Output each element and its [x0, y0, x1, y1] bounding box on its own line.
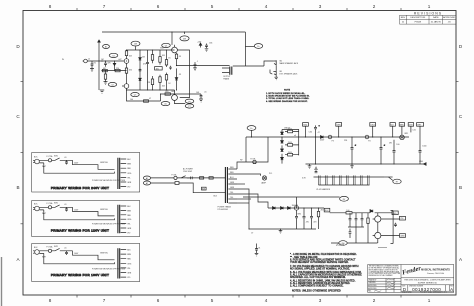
taps: [121, 159, 127, 187]
svg-text:47: 47: [354, 145, 356, 147]
wire: [381, 235, 400, 237]
wire half bridge: [177, 50, 189, 98]
svg-text:SW1: SW1: [54, 203, 58, 205]
svg-text:A2: A2: [146, 182, 148, 185]
svg-text:B+: B+: [257, 46, 259, 48]
node label Q2: [108, 82, 116, 86]
svg-text:10 JAN 95: 10 JAN 95: [431, 21, 442, 24]
svg-text:2. ALL COMPONENTS SUBJECT TO C: 2. ALL COMPONENTS SUBJECT TO CHANGE.: [290, 285, 344, 288]
wire primary neutral: [151, 183, 226, 193]
svg-text:47: 47: [318, 132, 320, 134]
zone letters left: [16, 44, 20, 262]
switch S1: [52, 205, 63, 207]
signature rows: [368, 278, 377, 292]
capacitor C12: [380, 137, 383, 164]
input jack J1: [84, 59, 88, 63]
wire: [39, 207, 48, 210]
connector label box: [400, 234, 406, 238]
signature scribbles: [374, 279, 395, 292]
svg-text:GRN: GRN: [127, 273, 132, 275]
node label RV2: [339, 241, 347, 246]
svg-text:APPROVED: APPROVED: [443, 16, 456, 19]
connector label box: [399, 123, 404, 127]
fuse F4: [365, 135, 369, 139]
speaker jack J4: [273, 71, 276, 76]
diode CR4: [281, 154, 284, 160]
primary wiring box 240V: [32, 153, 140, 193]
notes text block: [290, 253, 362, 293]
svg-text:Corona, CA U.S.A.: Corona, CA U.S.A.: [427, 272, 445, 275]
svg-text:CHECKED: CHECKED: [368, 282, 376, 284]
resistor R3: [115, 69, 120, 71]
ground: [205, 49, 209, 52]
diode CR23: [139, 78, 142, 80]
svg-text:DESCRIPTION: DESCRIPTION: [410, 17, 425, 19]
svg-text:470: 470: [306, 221, 309, 223]
svg-text:Q1: Q1: [112, 56, 114, 58]
svg-text:TRANS: TRANS: [223, 77, 230, 80]
svg-text:.01: .01: [64, 204, 67, 206]
connector label box: [336, 123, 342, 127]
cell bottom rail: [127, 89, 175, 91]
connector label box: [303, 123, 309, 127]
svg-text:SW1: SW1: [54, 246, 58, 248]
cell mid vertical: [139, 50, 141, 90]
svg-text:REVISIONS: REVISIONS: [414, 12, 442, 16]
svg-text:.01: .01: [64, 248, 67, 250]
svg-text:120V 60HZ: 120V 60HZ: [183, 171, 193, 173]
transformer primary winding: [118, 248, 120, 278]
svg-text:8: 8: [49, 4, 52, 9]
label extra: [64, 157, 108, 164]
transistor Q7: [375, 232, 381, 238]
resistor R16: [176, 53, 178, 54]
svg-text:2. MAIN SPEAKER MUST BE PLUGGE: 2. MAIN SPEAKER MUST BE PLUGGED IN.: [266, 95, 310, 98]
heater pair 4: [340, 175, 342, 185]
svg-text:1K5: 1K5: [129, 70, 132, 72]
svg-text:3: 3: [319, 4, 322, 9]
capacitor C4: [139, 69, 142, 72]
fuse F1: [48, 249, 51, 252]
wire: [338, 126, 340, 137]
resistor R6: [126, 65, 128, 68]
svg-text:REL.: REL.: [368, 290, 372, 292]
svg-text:GRN/YEL: GRN/YEL: [100, 209, 108, 211]
wire bias bottom: [331, 242, 378, 244]
wire: [381, 218, 400, 220]
transistor Q6: [377, 213, 379, 216]
plus sign: [355, 144, 357, 146]
svg-text:SW1: SW1: [54, 156, 58, 158]
svg-text:J2: J2: [88, 58, 90, 60]
svg-text:1K5: 1K5: [156, 68, 159, 70]
junction dots: [101, 31, 185, 94]
B+ top rail: [102, 31, 245, 33]
svg-text:YEL: YEL: [230, 197, 233, 199]
zone numbers top: [49, 4, 431, 9]
speaker jack J3: [273, 60, 276, 65]
AC plug P3: [35, 250, 40, 255]
svg-text:1N4003: 1N4003: [292, 205, 298, 207]
svg-text:ORG: ORG: [127, 219, 132, 221]
wire: [388, 177, 392, 180]
capacitor C14: [419, 126, 422, 164]
svg-text:GRN: GRN: [230, 187, 235, 189]
wire: [410, 126, 412, 132]
resistor R23: [318, 208, 320, 211]
capacitor C23: [394, 223, 397, 227]
wire cap to bottom: [315, 137, 317, 164]
wire: [39, 160, 48, 163]
svg-text:0019327000: 0019327000: [412, 287, 441, 292]
capacitor C21: [355, 213, 358, 227]
ground: [279, 229, 283, 233]
connector label box: [392, 211, 398, 215]
power bus rail: [98, 40, 100, 90]
zone numbers bottom: [49, 298, 431, 303]
resistor R22: [288, 153, 293, 156]
primary wiring box 120V: [32, 201, 140, 237]
wire: [44, 210, 115, 220]
svg-text:1N4007: 1N4007: [284, 128, 290, 130]
svg-text:6K8: 6K8: [171, 91, 174, 93]
svg-text:1: 1: [428, 4, 431, 9]
svg-text:5: 5: [211, 298, 214, 303]
svg-text:B: B: [459, 185, 462, 190]
svg-text:7: 7: [103, 4, 106, 9]
varistor RV1: [175, 182, 179, 185]
svg-text:1000: 1000: [422, 146, 426, 148]
svg-text:Q4: Q4: [165, 46, 167, 48]
svg-text:A1: A1: [146, 177, 148, 180]
wire HV corner: [245, 137, 247, 162]
svg-text:.33: .33: [179, 74, 182, 76]
capacitor C32: [65, 251, 68, 255]
svg-text:2W: 2W: [389, 142, 392, 144]
svg-text:1: 1: [428, 298, 431, 303]
node label P7: [185, 104, 194, 108]
wire: [251, 130, 253, 137]
node label HV: [247, 126, 256, 131]
svg-text:POWER SW SHOWN IN OFF POSITION: POWER SW SHOWN IN OFF POSITION: [92, 269, 126, 271]
svg-text:P/N 0035945: P/N 0035945: [218, 209, 229, 211]
wire: [384, 176, 393, 178]
transformer T2 windings: [230, 67, 232, 75]
node label A1: [143, 176, 150, 180]
node label LV: [340, 196, 349, 201]
svg-text:POWER SW SHOWN IN OFF POSITION: POWER SW SHOWN IN OFF POSITION: [92, 223, 126, 225]
resistor R2: [102, 69, 107, 71]
svg-text:4: 4: [265, 298, 268, 303]
plus sign: [318, 125, 320, 127]
svg-text:100: 100: [396, 144, 399, 146]
wire: [372, 126, 374, 137]
svg-text:C30: C30: [309, 131, 312, 133]
capacitor C3: [200, 94, 203, 99]
node label 45V: [184, 32, 186, 34]
wire secondary: [233, 65, 264, 67]
wire: [127, 90, 161, 101]
node label Q5: [161, 102, 170, 106]
resistor R14: [166, 50, 168, 60]
switch S1: [181, 176, 190, 178]
wire: [44, 163, 115, 173]
wire: [171, 32, 173, 45]
zone letters right: [459, 44, 463, 262]
connector label box: [390, 123, 395, 127]
capacitor C10: [314, 125, 317, 137]
wire: [285, 132, 299, 155]
main DC rail: [246, 136, 409, 138]
svg-text:F3: F3: [332, 140, 334, 142]
resistor R8: [165, 93, 170, 95]
capacitor C18: [310, 208, 313, 229]
svg-text:JG: JG: [448, 22, 451, 24]
connector label box: [417, 123, 424, 127]
capacitor C17: [303, 208, 306, 229]
svg-text:6: 6: [157, 4, 160, 9]
fuse F1: [48, 206, 51, 209]
wire: [237, 174, 261, 176]
heater pair 2: [326, 175, 328, 185]
svg-text:YEL: YEL: [230, 192, 233, 194]
resistor R25: [367, 213, 369, 218]
wire second rail: [102, 70, 127, 72]
svg-text:x4: x4: [294, 135, 296, 137]
fuse F1: [174, 176, 177, 179]
svg-text:GND: GND: [419, 161, 424, 163]
svg-text:Q2: Q2: [111, 85, 113, 87]
svg-text:.33: .33: [179, 56, 182, 58]
svg-text:2: 2: [373, 298, 376, 303]
junction dots: [248, 136, 394, 229]
svg-text:F4: F4: [368, 140, 370, 142]
svg-text:LAMP: LAMP: [261, 181, 267, 184]
svg-text:YOUR NEAREST AUTHORIZED SERVIC: YOUR NEAREST AUTHORIZED SERVICE CENTER.: [290, 261, 349, 264]
fuse F3: [328, 135, 332, 139]
svg-text:8: 8: [49, 298, 52, 303]
node label Q1: [109, 53, 118, 57]
stamp scribble: [336, 244, 344, 246]
staircase wire 3: [237, 194, 268, 208]
svg-text:220: 220: [116, 68, 119, 70]
resistor R5: [126, 56, 128, 57]
node label T1: [135, 46, 137, 50]
svg-text:P9448: P9448: [415, 22, 422, 24]
svg-text:ORG: ORG: [127, 173, 132, 175]
svg-text:B: B: [16, 185, 19, 190]
tap labels: [230, 167, 235, 199]
diode CR20: [175, 68, 178, 90]
resistor R15: [166, 73, 168, 75]
ground: [308, 164, 312, 168]
resistor R12: [159, 75, 161, 77]
svg-text:4K7: 4K7: [103, 68, 106, 70]
svg-text:YEL: YEL: [127, 177, 130, 179]
svg-text:5: 5: [211, 4, 214, 9]
capacitor C22: [361, 213, 364, 227]
wire: [392, 126, 394, 137]
label extra: [64, 204, 108, 211]
wire: [87, 60, 124, 62]
svg-text:F1 3A: F1 3A: [172, 173, 178, 176]
resistor R31: [209, 177, 213, 179]
resistor R30: [200, 177, 204, 179]
switch S1: [52, 248, 63, 250]
heater pair 3: [333, 175, 335, 185]
diode CR1: [281, 130, 284, 135]
wire: [305, 126, 307, 137]
svg-text:3: 3: [319, 298, 322, 303]
capacitor C33: [191, 177, 193, 180]
wire jack riser: [264, 61, 273, 66]
wire: [348, 227, 364, 243]
diode CR2: [281, 137, 284, 143]
fuse F2: [253, 160, 256, 163]
node label OT: [254, 44, 262, 49]
connector label box: [408, 123, 413, 127]
svg-text:MAIN SPEAKER JACK: MAIN SPEAKER JACK: [280, 62, 299, 65]
lamp DS1: [262, 176, 266, 180]
svg-text:NOTE: NOTE: [284, 90, 291, 92]
svg-text:R1: R1: [94, 62, 96, 64]
diode CR8: [273, 207, 276, 210]
svg-text:GRN: GRN: [127, 182, 132, 184]
node label HT: [393, 179, 401, 184]
ground: [104, 82, 108, 85]
wire HV tap: [237, 137, 268, 169]
wire: [401, 126, 403, 135]
svg-text:POWER TRANS: POWER TRANS: [218, 206, 232, 209]
svg-text:A: A: [450, 287, 453, 292]
capacitor C1: [104, 61, 107, 67]
resistor R4: [105, 71, 107, 74]
rectifier circle: [294, 206, 298, 210]
svg-text:1. BOTH JACKS WIRED IN PARALLE: 1. BOTH JACKS WIRED IN PARALLEL.: [266, 92, 306, 95]
svg-text:.1: .1: [196, 61, 198, 63]
capacitor C0: [91, 61, 94, 69]
ground rail: [249, 228, 316, 230]
wire Q5 out: [175, 101, 186, 104]
heater pair 8: [368, 175, 370, 185]
svg-text:100: 100: [346, 210, 349, 212]
diode CR10: [288, 207, 291, 210]
svg-text:BR1: BR1: [405, 133, 409, 135]
svg-text:.01: .01: [258, 247, 261, 249]
svg-text:100: 100: [130, 99, 133, 101]
ground: [100, 90, 104, 93]
svg-text:820: 820: [165, 91, 168, 93]
wire output node: [177, 65, 230, 67]
staircase wire 2: [237, 189, 249, 204]
capacitor C7: [194, 62, 197, 68]
heater chain wire: [314, 176, 385, 178]
connector label box: [400, 216, 406, 220]
transformer T1 taps: [228, 169, 237, 203]
svg-text:NO SIGNAL APPLIED. LINE AT NOM: NO SIGNAL APPLIED. LINE AT NOMINAL VOLTA…: [290, 267, 350, 270]
wire: [275, 65, 277, 70]
svg-text:F1 T2A: F1 T2A: [47, 155, 54, 158]
svg-text:BR2: BR2: [298, 214, 302, 216]
ground: [350, 164, 354, 168]
connector label box: [370, 123, 376, 127]
svg-text:GRN/YEL: GRN/YEL: [100, 253, 108, 255]
svg-text:470: 470: [143, 64, 146, 66]
title block frame: [368, 265, 454, 293]
tap labels: [127, 206, 132, 234]
node arrow: [424, 163, 427, 166]
svg-text:6: 6: [157, 298, 160, 303]
diode CR3: [281, 145, 284, 151]
capacitor C20: [349, 213, 352, 227]
heater pair 7: [361, 175, 363, 185]
svg-text:SW: SW: [202, 188, 205, 190]
svg-text:THIS DWG IS A SCHEMATIC, COMPL: THIS DWG IS A SCHEMATIC, COMPLETE AMPLIF…: [404, 279, 451, 282]
svg-text:D: D: [403, 287, 406, 292]
resistor R21: [288, 144, 293, 147]
svg-text:PRIMARY WIRING FOR 100V UNIT: PRIMARY WIRING FOR 100V UNIT: [51, 273, 109, 277]
capacitor C5: [146, 50, 149, 90]
resistor R20: [288, 130, 293, 133]
svg-text:POWER SW SHOWN IN OFF POSITION: POWER SW SHOWN IN OFF POSITION: [92, 180, 126, 182]
wire LV feed: [243, 197, 340, 208]
staircase wire 5: [237, 202, 249, 204]
wire to net label: [245, 46, 254, 48]
resistor R7: [144, 100, 149, 102]
resistor R10: [152, 76, 154, 79]
taps: [121, 206, 127, 232]
plus sign: [384, 144, 386, 146]
svg-text:GRN: GRN: [230, 182, 235, 184]
capacitor C30: [65, 160, 68, 164]
svg-text:4. SEE WIRING DIAGRAM FOR HOOK: 4. SEE WIRING DIAGRAM FOR HOOKUP.: [266, 100, 308, 103]
capacitor C24: [349, 229, 352, 239]
svg-text:V1-V5 HEATERS: V1-V5 HEATERS: [316, 188, 331, 191]
tap labels: [127, 159, 132, 189]
wire: [39, 251, 48, 254]
svg-text:4: 4: [265, 4, 268, 9]
svg-text:SUPER SERIES 60: SUPER SERIES 60: [418, 283, 438, 285]
wire right rail: [391, 211, 394, 244]
svg-text:YEL: YEL: [127, 224, 130, 226]
svg-text:Q3: Q3: [134, 95, 136, 97]
node V+ arrow: [98, 40, 101, 42]
staircase wire 4: [237, 198, 251, 200]
transistor Q2: [114, 61, 116, 63]
heater pair 1: [319, 175, 321, 185]
node label A2: [143, 181, 150, 185]
svg-text:47: 47: [383, 145, 385, 147]
ground: [274, 76, 278, 80]
svg-text:PRIMARY WIRING FOR 120V UNIT: PRIMARY WIRING FOR 120V UNIT: [51, 228, 109, 232]
capacitor C15: [315, 170, 318, 173]
svg-text:REV: REV: [401, 17, 406, 19]
svg-text:F2 2A: F2 2A: [251, 157, 257, 160]
tap labels: [127, 250, 132, 280]
ground: [199, 99, 203, 102]
rectifier CR7: [400, 135, 405, 140]
svg-text:C36: C36: [209, 43, 212, 45]
node label B1: [103, 45, 110, 49]
transistor Q1: [124, 59, 129, 64]
diode CR11: [370, 210, 373, 213]
wire feedback: [161, 94, 202, 101]
taps: [121, 250, 127, 278]
mark line: [378, 247, 387, 249]
capacitor C31: [65, 207, 68, 211]
staircase wire 1: [237, 183, 245, 185]
bottom rail: [306, 163, 424, 165]
